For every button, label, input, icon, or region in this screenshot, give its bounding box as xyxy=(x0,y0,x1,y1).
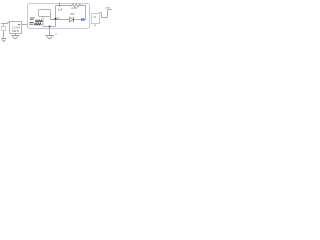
meter box M1 xyxy=(92,14,100,24)
label dash xyxy=(18,24,20,26)
resistor R1 xyxy=(72,4,81,7)
IC box U1 xyxy=(39,10,51,17)
label value xyxy=(29,23,41,26)
label U1 xyxy=(30,18,35,19)
node junction xyxy=(54,18,56,20)
svg-text:out: out xyxy=(106,5,110,9)
svg-text:0: 0 xyxy=(55,32,57,36)
wire xyxy=(100,10,112,18)
svg-text:4.7k: 4.7k xyxy=(71,6,77,10)
wire xyxy=(15,33,17,35)
wire xyxy=(74,19,86,21)
wire xyxy=(3,24,5,27)
wire xyxy=(55,6,57,27)
wire bus xyxy=(43,26,56,28)
meter tick xyxy=(94,25,96,26)
ground xyxy=(45,36,54,39)
wire top xyxy=(56,5,73,7)
wire xyxy=(49,27,51,36)
diode cathode bar xyxy=(73,17,75,22)
diode D1 xyxy=(70,17,74,22)
svg-text:60Hz: 60Hz xyxy=(12,29,20,33)
ground xyxy=(11,36,20,39)
ground xyxy=(1,39,6,42)
label part xyxy=(35,20,42,22)
meter dash xyxy=(94,16,97,18)
svg-text:1uF: 1uF xyxy=(58,7,63,11)
pin wire xyxy=(42,17,44,27)
node junction xyxy=(49,26,51,28)
wire xyxy=(1,23,10,24)
wire xyxy=(22,24,29,26)
wire xyxy=(80,6,86,20)
pin wire xyxy=(51,17,70,20)
plus mark xyxy=(59,3,61,7)
svg-text:5%: 5% xyxy=(70,12,75,16)
wire xyxy=(3,31,5,39)
fuse F1 xyxy=(2,27,6,31)
source box V1 xyxy=(10,22,22,34)
highlighted part xyxy=(81,18,85,21)
selection highlight box xyxy=(28,4,90,29)
